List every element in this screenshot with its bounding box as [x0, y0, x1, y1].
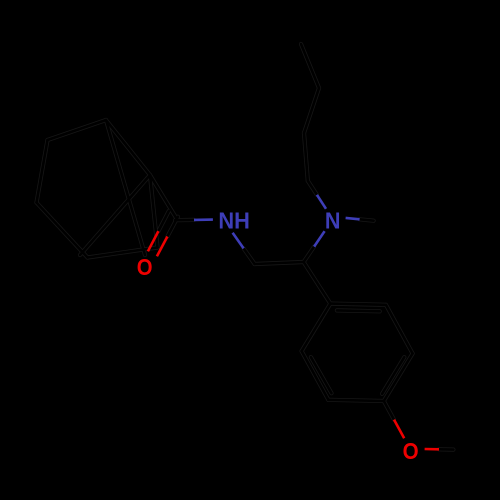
wire N2-C11 methyl black half [360, 219, 374, 220]
wire edge underlay phenyl P4-P5 [328, 400, 384, 401]
wire edge underlay C=O black halves [158, 211, 178, 237]
wire bridge bond V2-B2 [106, 120, 145, 255]
wire edge underlay left ring V6-V1 [150, 175, 158, 248]
wire N1-C8 black half [244, 248, 255, 264]
wire edge underlay left ring V1-V2 [106, 120, 150, 175]
wire edge underlay phenyl inner double P1-P2 [337, 308, 380, 313]
wire edge underlay phenyl P3-P4 [384, 354, 413, 402]
wire left ring bond V2-V3 [48, 120, 107, 140]
wire chain bond C12-C13 [304, 88, 319, 133]
wire phenyl ring bond P1-P2 [330, 304, 386, 305]
bond N2-C11 methyl blue half [346, 218, 360, 219]
wire edge underlay phenyl P1-P2 [330, 304, 386, 305]
wire edge underlay bond V1-C7 [150, 175, 177, 219]
wire edge underlay phenyl inner double P3-P4 [382, 357, 404, 394]
carbonyl C7=O1 red halves [148, 231, 168, 256]
bond P4-O2 red half [394, 420, 404, 439]
wire left ring bond V5-V6 [88, 248, 158, 258]
wire edge underlay bond C9-P1 [304, 262, 331, 304]
wire edge underlay phenyl inner double P5-P6 [311, 357, 332, 393]
wire edge underlay phenyl P2-P3 [386, 305, 413, 354]
wire edge underlay left ring V2-V3 [48, 120, 107, 140]
wire chain bond C10-C12 [304, 133, 308, 181]
faint antialias edge underlays for all black carbon-carbon bonds [37, 44, 454, 450]
wire edge underlay bridge V1-B1 [80, 175, 150, 255]
wire C9-N2 black half [304, 247, 315, 262]
svg-text:O: O [403, 438, 419, 464]
wire edge underlay left ring V3-V4 [37, 140, 48, 203]
svg-text:N: N [325, 208, 341, 234]
wire phenyl inner double bond P1-P2 [337, 309, 380, 312]
amide bond C7-N1 blue half [194, 218, 213, 221]
wire phenyl ring bond P4-P5 [328, 400, 384, 401]
wire edge underlay left ring V5-V6 [88, 248, 158, 258]
wire bond C8-C9 [255, 262, 304, 264]
svg-text:NH: NH [218, 208, 250, 234]
wire left ring bond V1-V2 [106, 120, 150, 175]
bond O2-C15 methyl red half [425, 448, 439, 451]
wire phenyl inner double bond P3-P4 [382, 357, 404, 394]
wire edge underlay P4-O2 black half [384, 401, 394, 420]
wire edge underlay N2-C10 black half [308, 181, 317, 195]
bond C9-N2 blue half [314, 231, 325, 246]
wire edge underlay chain C12-C13 [304, 88, 319, 133]
wire left ring bond V4-V5 [37, 203, 88, 258]
wire edge underlay left ring V4-V5 [37, 203, 88, 258]
wire edge underlay C7-N1 black half [175, 218, 194, 223]
wire edge underlay N2-C11 black half [360, 219, 374, 220]
wire P4-O2 black half [384, 401, 394, 420]
wire C=O inner line black half [158, 211, 169, 231]
wire phenyl ring bond P6-P1 [302, 304, 331, 352]
wire phenyl ring bond P2-P3 [386, 305, 413, 354]
wire edge underlay phenyl P6-P1 [302, 304, 331, 352]
wire C=O inner line red half [148, 231, 159, 251]
wire edge underlay O2-C15 black half [439, 447, 453, 452]
wire phenyl ring bond P5-P6 [302, 351, 329, 400]
wire edge underlay C8-C9 [255, 262, 304, 264]
black bond cores over the edge underlays [37, 44, 454, 450]
bond N2-C10 blue half [317, 195, 326, 209]
wire edge underlay chain C10-C12 [304, 133, 308, 181]
wire chain bond C13-C14 [301, 44, 319, 88]
wire O2-C15 methyl black half [439, 448, 453, 451]
wire bond C9-P1 (to phenyl) [304, 262, 331, 304]
wire C=O main line black half [167, 217, 178, 237]
wire bridge bond V1-B1 [80, 175, 150, 255]
wire C=O main line red half [157, 237, 168, 257]
wire N2-C10 black half [308, 181, 317, 195]
wire edge underlay C9-N2 black half [304, 247, 315, 262]
wire left ring bond V3-V4 [37, 140, 48, 203]
bond N1-C8 blue half [233, 233, 244, 249]
wire phenyl ring bond P3-P4 [384, 354, 413, 402]
svg-text:O: O [137, 254, 153, 280]
wire edge underlay N1-C8 black half [244, 248, 255, 264]
wire left ring bond V6-V1 [150, 175, 158, 248]
wire edge underlay bridge V2-B2 [106, 120, 145, 255]
wire amide C7-N1 black half [175, 219, 194, 222]
wire edge underlay chain C13-C14 [301, 44, 319, 88]
wire edge underlay phenyl P5-P6 [302, 351, 329, 400]
wire bond V1-C7 (to carbonyl carbon) [150, 175, 177, 219]
wire phenyl inner double bond P5-P6 [311, 357, 332, 393]
